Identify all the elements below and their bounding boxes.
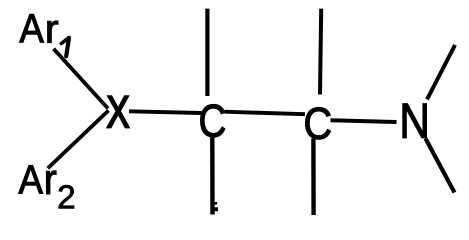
bond C2 lower vertical [311, 139, 316, 216]
bond C1-C2 [225, 112, 306, 115]
bond C2 upper vertical [320, 9, 321, 95]
bond Ar1-X [54, 49, 108, 109]
label Ar2 letter A [19, 165, 43, 193]
bond Ar2-X [48, 111, 109, 169]
atom X [107, 96, 129, 127]
bond N lower diagonal [426, 139, 455, 193]
bond C1 upper vertical [205, 9, 209, 96]
label Ar1 letter r [47, 21, 58, 43]
bond X-C1 [129, 111, 202, 113]
bond C1 lower vertical [210, 134, 215, 215]
label Ar2 subscript 2 [59, 185, 74, 208]
bond N upper diagonal [427, 45, 455, 100]
label Ar1 letter A [19, 14, 43, 42]
bond C2-N [331, 120, 397, 122]
label Ar2 letter r [46, 171, 56, 194]
scan speck right of C1 lower bond [215, 202, 218, 205]
label Ar1 subscript 1 [61, 38, 69, 57]
atom C1 [200, 105, 224, 138]
atom N [403, 104, 427, 138]
atom C2 [306, 108, 331, 140]
